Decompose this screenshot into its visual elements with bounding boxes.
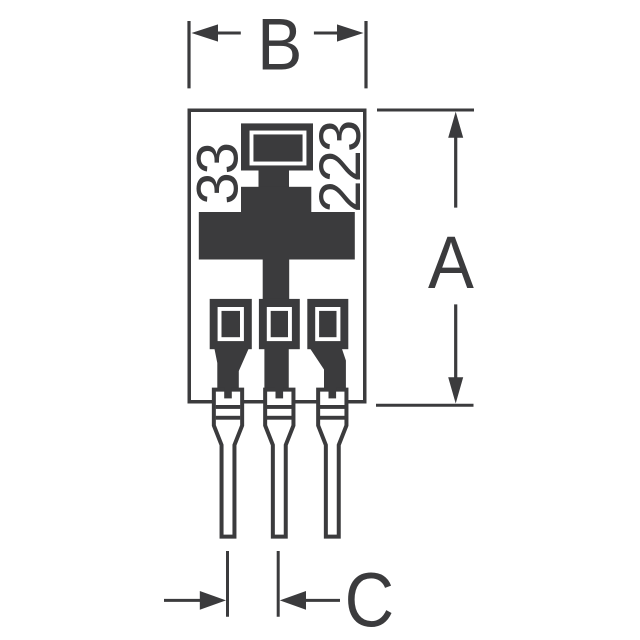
- svg-text:A: A: [428, 222, 474, 305]
- svg-text:B: B: [257, 3, 302, 85]
- lead 1 upper bar: [216, 405, 241, 409]
- svg-text:C: C: [345, 558, 394, 640]
- lead 3 lower bar: [320, 416, 345, 420]
- lead 2 upper bar: [267, 405, 292, 409]
- dimension B extension line right: [364, 21, 367, 88]
- resistor element center block: [241, 187, 311, 213]
- lead 2 tab: [276, 387, 284, 398]
- svg-text:223: 223: [308, 122, 373, 213]
- solder pad 3: [307, 299, 348, 349]
- resistor element cross arms: [199, 212, 355, 260]
- dimension C extension line right: [277, 551, 280, 617]
- pad 1 neck: [215, 349, 249, 390]
- top element pad inner white frame: [252, 133, 305, 164]
- solder pad 2: [259, 299, 300, 349]
- pad 2 neck: [264, 349, 288, 390]
- dimension A up arrow: [448, 112, 463, 138]
- dimension C extension line left: [226, 551, 229, 617]
- dimension A down arrow: [448, 377, 463, 403]
- lead 1 lower bar: [216, 416, 241, 420]
- dimension A line upper: [454, 130, 457, 208]
- solder pad 1: [210, 299, 252, 349]
- resistor element lower stem: [263, 259, 290, 300]
- lead 3 tab: [329, 387, 337, 398]
- dimension A extension line top: [377, 109, 474, 112]
- dimension C left arrow: [164, 591, 226, 610]
- pad 3 neck: [310, 349, 346, 390]
- dimension B extension line left: [187, 21, 190, 88]
- dimension C right arrow: [280, 591, 340, 610]
- top element pad (marking block): [241, 123, 313, 170]
- lead 1 tab: [224, 387, 232, 398]
- dimension A line lower: [454, 304, 457, 385]
- package body outline: [189, 110, 365, 402]
- lead 3 outline: [318, 390, 346, 537]
- dimension B right arrow: [314, 24, 364, 41]
- resistor element upper stem: [259, 169, 290, 188]
- svg-text:33: 33: [185, 144, 250, 205]
- lead 1 outline: [214, 390, 242, 537]
- lead 3 upper bar: [320, 405, 345, 409]
- lead 2 outline: [265, 390, 293, 537]
- lead 2 lower bar: [267, 416, 292, 420]
- dimension A extension line bottom: [376, 404, 474, 407]
- dimension B left arrow: [192, 24, 241, 41]
